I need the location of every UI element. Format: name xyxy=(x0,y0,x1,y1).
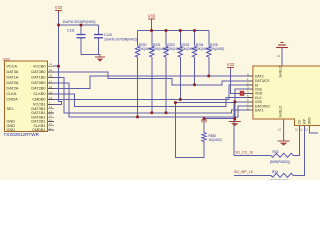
svg-text:DAT0B0: DAT0B0 xyxy=(31,81,45,85)
svg-text:17: 17 xyxy=(49,79,53,83)
svg-text:C111: C111 xyxy=(67,29,75,33)
svg-text:DAT2B0: DAT2B0 xyxy=(31,87,45,91)
svg-text:10uF/6.3V/X5R(0402): 10uF/6.3V/X5R(0402) xyxy=(104,37,137,41)
svg-text:10K(0402): 10K(0402) xyxy=(195,47,210,51)
svg-text:15: 15 xyxy=(49,90,53,94)
svg-text:SHIELD: SHIELD xyxy=(279,105,283,117)
svg-text:SD_WP_16: SD_WP_16 xyxy=(234,170,253,174)
svg-text:DAT3B0: DAT3B0 xyxy=(31,70,45,74)
svg-text:SHIELD: SHIELD xyxy=(279,65,283,77)
svg-text:SD_CD_16: SD_CD_16 xyxy=(235,151,253,155)
svg-text:TXS02612RTWR: TXS02612RTWR xyxy=(4,132,40,137)
svg-text:CLKA: CLKA xyxy=(7,92,17,96)
svg-text:10K(0402): 10K(0402) xyxy=(152,47,167,51)
svg-text:DAT3A: DAT3A xyxy=(7,70,19,74)
svg-text:DAT1: DAT1 xyxy=(255,109,264,113)
svg-text:SEL: SEL xyxy=(7,107,14,111)
svg-text:10K(0402): 10K(0402) xyxy=(209,47,224,51)
svg-text:CMDA: CMDA xyxy=(7,98,19,102)
svg-text:19: 19 xyxy=(49,68,53,72)
svg-text:14: 14 xyxy=(49,96,53,100)
svg-text:1K(0402): 1K(0402) xyxy=(209,138,222,142)
svg-text:V33: V33 xyxy=(55,5,63,10)
svg-text:CMDB0: CMDB0 xyxy=(32,98,45,102)
svg-text:CLKB0: CLKB0 xyxy=(33,92,45,96)
svg-text:10K(0402): 10K(0402) xyxy=(181,47,196,51)
svg-text:R34: R34 xyxy=(272,170,278,174)
svg-text:WP: WP xyxy=(302,119,306,124)
svg-text:16: 16 xyxy=(49,85,53,89)
svg-text:DAT2A: DAT2A xyxy=(7,87,19,91)
svg-text:18: 18 xyxy=(49,74,53,78)
svg-text:GND: GND xyxy=(307,117,311,125)
svg-text:U50: U50 xyxy=(3,57,11,62)
svg-text:10K(0402): 10K(0402) xyxy=(167,47,182,51)
svg-text:R33: R33 xyxy=(273,150,279,154)
svg-text:[50R(P0603)]: [50R(P0603)] xyxy=(270,160,290,164)
svg-text:10K(0402): 10K(0402) xyxy=(138,47,153,51)
svg-text:DAT0A: DAT0A xyxy=(7,81,19,85)
svg-text:DAT1A: DAT1A xyxy=(7,76,19,80)
svg-text:24: 24 xyxy=(49,63,53,67)
svg-text:DAT2: DAT2 xyxy=(255,74,264,78)
svg-text:10uF/6.3V/X5R(0402): 10uF/6.3V/X5R(0402) xyxy=(63,20,96,24)
svg-text:VCCB0: VCCB0 xyxy=(33,64,46,68)
svg-text:V33: V33 xyxy=(227,62,235,67)
svg-text:VCCA: VCCA xyxy=(7,64,18,68)
svg-text:[50R(P0603)]: [50R(P0603)] xyxy=(270,179,290,180)
svg-text:CD: CD xyxy=(297,119,301,124)
svg-text:C110: C110 xyxy=(104,33,112,37)
svg-text:DAT1B0: DAT1B0 xyxy=(31,76,45,80)
svg-text:V33: V33 xyxy=(148,14,156,19)
